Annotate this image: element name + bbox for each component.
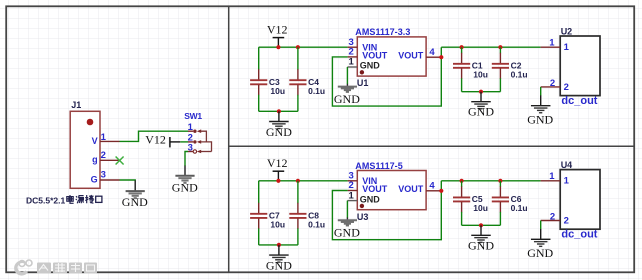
pin g stub J1 [100,159,119,161]
ground symbol input caps [269,245,289,262]
junction dot under V12 flag [276,45,280,49]
svg-text:0.1u: 0.1u [511,70,528,80]
power ground arrow U1 [338,87,357,92]
wire bottom of input caps [259,110,298,112]
svg-text:3: 3 [101,170,106,181]
svg-text:0.1u: 0.1u [511,203,528,213]
junction dot output-cap ground [479,223,483,227]
pin 4 VOUT stub [426,56,441,58]
svg-text:2: 2 [550,212,555,223]
svg-text:dc_out: dc_out [561,95,597,107]
svg-text:U3: U3 [357,212,369,222]
svg-text:GND: GND [334,92,360,106]
svg-text:SW1: SW1 [184,111,202,121]
wire SW1 pin3 to ground [188,151,193,153]
pin 2 VOUT stub [348,190,358,192]
junction dot pin4 [439,55,443,59]
svg-text:10u: 10u [270,86,285,96]
svg-text:DC5.5*2.1: DC5.5*2.1 [26,195,65,205]
wire input rail V12 [259,46,348,48]
svg-text:10u: 10u [270,220,285,230]
ground symbol input caps [269,111,289,128]
svg-text:GND: GND [172,180,198,194]
wire bottom of input caps [259,244,298,246]
svg-text:2: 2 [101,150,106,161]
junction dot input at C4 [296,45,300,49]
svg-text:1: 1 [549,37,555,48]
svg-text:V12: V12 [267,22,288,36]
capacitor C3 [250,47,267,111]
pin V stub J1 [100,140,119,142]
capacitor C7 [250,181,267,245]
pin 4 VOUT stub [426,190,441,192]
svg-text:V: V [92,136,98,146]
junction dot output at C2 [498,45,502,49]
svg-text:GND: GND [122,195,148,209]
svg-text:VOUT: VOUT [398,50,424,60]
svg-text:2: 2 [564,82,569,93]
power ground arrow U3 [338,220,357,225]
capacitor C1 [453,47,470,91]
ground symbol SW1 [175,166,194,183]
svg-text:0.1u: 0.1u [308,86,325,96]
svg-text:GND: GND [266,258,292,272]
pin 2 stub U4 [541,220,561,222]
pin 1 stub U4 [541,180,561,182]
svg-text:AMS1117-3.3: AMS1117-3.3 [355,27,410,37]
svg-text:2: 2 [564,216,569,227]
wire J1 G to ground [120,179,136,182]
svg-text:0.1u: 0.1u [308,220,325,230]
junction dot under V12 flag [276,179,280,183]
wire J1 V to SW1 pin1 [120,131,189,141]
wire output rail [441,180,540,182]
svg-text:VOUT: VOUT [398,184,424,194]
svg-text:1: 1 [349,190,355,201]
svg-text:g: g [92,155,98,165]
no-connect X on pin g [116,157,124,165]
junction dot input-cap ground [277,109,281,113]
pin 1 GND stub [347,66,357,68]
svg-text:AMS1117-5: AMS1117-5 [355,161,402,171]
junction dot input at C8 [296,179,300,183]
svg-text:2: 2 [550,78,555,89]
svg-text:VOUT: VOUT [362,50,388,60]
ground symbol J1 [126,180,145,198]
capacitor C2 [492,47,509,91]
junction dot pin4 [439,189,443,193]
net V12 power flag (AMS1117-5 section) [267,156,288,181]
pin 2 VOUT stub [348,56,358,58]
wire VOUT feedback loop [332,47,441,106]
wire U4 pin2 to ground [540,221,542,240]
svg-text:GND: GND [266,125,292,139]
junction dot output at C5 [460,179,464,183]
wire bottom of output caps [462,91,501,93]
svg-text:4: 4 [429,181,435,192]
watermark [14,260,97,276]
svg-text:1: 1 [188,122,194,133]
connector U2 [560,36,600,96]
svg-text:GND: GND [527,246,553,260]
svg-text:10u: 10u [473,70,488,80]
capacitor C5 [453,181,470,226]
wire output rail [441,46,540,48]
pin 2 stub U2 [541,86,561,88]
net V12 power flag (AMS1117-3.3 section) [267,22,288,47]
svg-text:1: 1 [549,171,555,182]
ground symbol output caps [471,225,491,242]
connector U4 [560,170,600,230]
svg-text:U2: U2 [561,26,573,36]
net label V12 at switch [145,132,180,147]
capacitor C4 [289,47,306,111]
pin G stub J1 [100,179,119,181]
svg-text:10u: 10u [473,203,488,213]
pin 1 stub U2 [541,46,561,48]
svg-text:1: 1 [564,176,570,187]
svg-text:GND: GND [334,225,360,239]
wire input rail V12 [259,180,348,182]
junction dot input-cap ground [277,243,281,247]
label J1 value DC5.5*2.1 socket [26,195,102,205]
wire regulator GND drop [346,201,348,223]
svg-text:GND: GND [468,238,494,252]
wire U2 pin2 to ground [540,87,542,106]
svg-text:dc_out: dc_out [561,229,597,241]
svg-text:G: G [91,174,98,184]
wire regulator GND drop [346,67,348,89]
junction dot output at C6 [498,179,502,183]
capacitor C8 [289,181,306,245]
svg-text:GND: GND [360,194,381,204]
pin 3 VIN stub [348,46,358,48]
svg-text:GND: GND [527,112,553,126]
svg-text:1: 1 [349,57,355,68]
section divider vertical [228,6,230,272]
ground symbol U2 pin2 [531,106,551,113]
svg-text:1: 1 [564,42,570,53]
svg-text:J1: J1 [71,100,81,110]
ground symbol U4 pin2 [531,239,551,246]
svg-text:1: 1 [101,132,107,143]
svg-text:U1: U1 [357,78,369,88]
svg-text:VOUT: VOUT [362,184,388,194]
ground symbol output caps [471,92,491,109]
svg-text:U4: U4 [561,160,573,170]
junction dot output-cap ground [479,90,483,94]
voltage regulator U3 (AMS1117-5) [357,171,426,210]
section divider horizontal [229,145,635,147]
wire VOUT feedback loop [332,181,441,240]
capacitor C6 [492,181,509,226]
connector J1 DC jack [70,111,100,188]
svg-text:V12: V12 [145,132,166,146]
voltage regulator U1 (AMS1117-3.3) [357,37,426,76]
wire V12 label to SW1 pin2 [180,141,188,143]
pin 1 GND stub [347,200,357,202]
pin 3 VIN stub [348,180,358,182]
svg-text:GND: GND [360,61,381,71]
svg-text:4: 4 [429,47,435,58]
switch SW1 [193,129,211,153]
wire bottom of output caps [462,224,501,226]
svg-text:V12: V12 [267,156,288,170]
junction dot output at C1 [460,45,464,49]
svg-text:GND: GND [468,105,494,119]
